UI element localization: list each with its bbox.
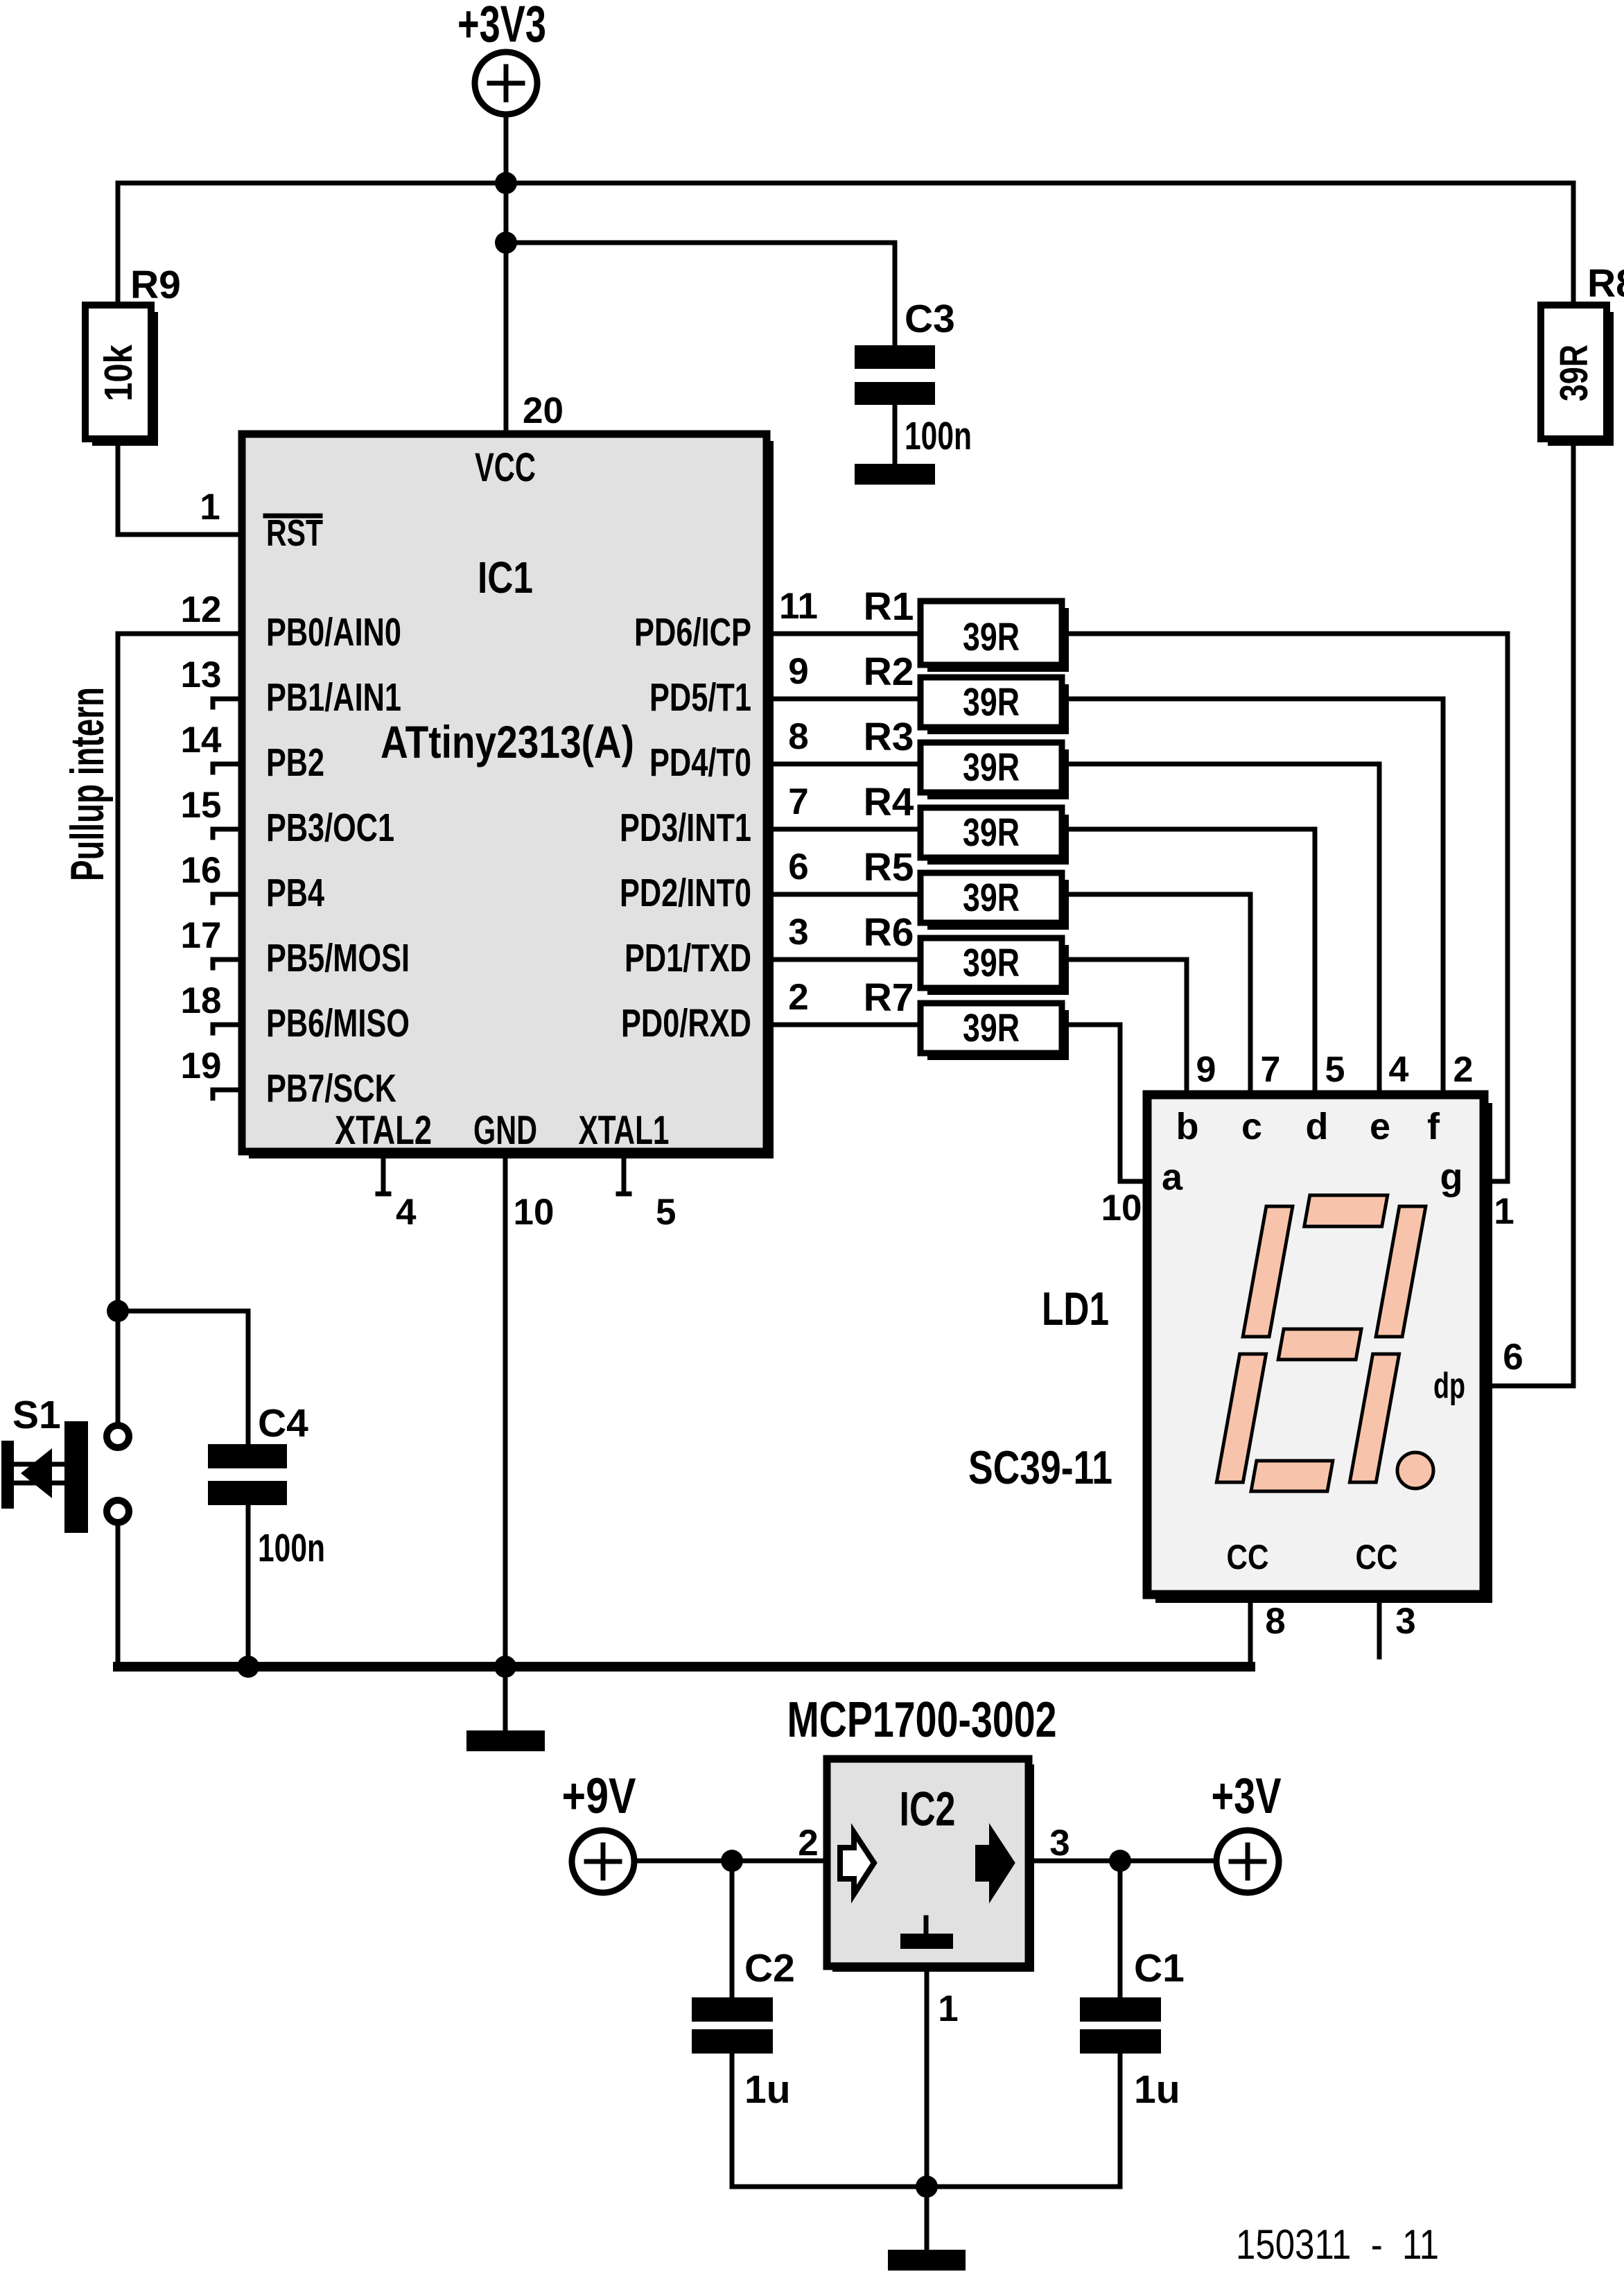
svg-text:12: 12 [181,589,222,630]
svg-text:4: 4 [396,1192,417,1233]
svg-text:2: 2 [1453,1050,1474,1090]
svg-text:XTAL2: XTAL2 [335,1108,432,1153]
svg-text:R2: R2 [864,650,914,694]
svg-text:dp: dp [1433,1366,1465,1406]
svg-text:1: 1 [200,487,220,528]
svg-text:13: 13 [181,654,222,695]
svg-text:6: 6 [788,847,808,887]
svg-text:39R: 39R [963,876,1020,920]
svg-text:C3: C3 [905,297,955,341]
svg-text:PB7/SCK: PB7/SCK [266,1066,396,1111]
svg-text:b: b [1176,1106,1199,1147]
svg-text:1: 1 [938,1988,958,2029]
svg-text:+3V: +3V [1212,1769,1282,1824]
svg-text:7: 7 [1261,1050,1281,1090]
svg-text:XTAL1: XTAL1 [579,1108,670,1153]
svg-text:15: 15 [181,785,222,826]
svg-text:19: 19 [181,1045,222,1086]
svg-text:39R: 39R [963,941,1020,985]
svg-text:PB3/OC1: PB3/OC1 [266,806,394,850]
svg-text:S1: S1 [12,1393,61,1437]
svg-text:LD1: LD1 [1042,1283,1109,1335]
svg-text:PD6/ICP: PD6/ICP [634,610,751,654]
svg-text:4: 4 [1389,1050,1409,1090]
svg-text:R9: R9 [130,263,181,307]
svg-text:PB4: PB4 [266,871,324,915]
svg-text:IC1: IC1 [478,553,533,602]
svg-text:MCP1700-3002: MCP1700-3002 [787,1692,1057,1748]
svg-text:IC2: IC2 [900,1782,956,1836]
svg-text:8: 8 [1265,1601,1285,1642]
svg-text:6: 6 [1503,1337,1523,1378]
svg-text:GND: GND [473,1108,537,1153]
svg-text:PD5/T1: PD5/T1 [649,675,751,720]
svg-text:CC: CC [1227,1538,1269,1577]
svg-text:9: 9 [788,651,808,692]
svg-text:16: 16 [181,850,222,891]
svg-text:150311 - 11: 150311 - 11 [1236,2221,1439,2268]
svg-text:10: 10 [514,1192,555,1233]
svg-text:C4: C4 [258,1401,308,1446]
svg-text:5: 5 [656,1192,676,1233]
svg-text:3: 3 [1049,1823,1069,1864]
svg-text:39R: 39R [1552,345,1596,401]
svg-text:17: 17 [181,915,222,956]
svg-text:1u: 1u [744,2067,791,2112]
svg-text:R4: R4 [864,780,914,824]
svg-text:RST: RST [266,512,323,554]
svg-text:C2: C2 [744,1946,795,1990]
svg-text:C1: C1 [1134,1946,1185,1990]
svg-text:g: g [1440,1156,1463,1198]
svg-text:100n: 100n [905,414,972,458]
svg-text:f: f [1427,1106,1440,1147]
svg-text:PB2: PB2 [266,740,324,785]
svg-text:39R: 39R [963,1006,1020,1050]
svg-text:3: 3 [788,912,808,953]
svg-text:R5: R5 [864,845,914,889]
svg-text:3: 3 [1395,1601,1415,1642]
svg-text:14: 14 [181,720,222,761]
svg-text:PB5/MOSI: PB5/MOSI [266,936,410,980]
svg-text:9: 9 [1196,1050,1216,1090]
svg-text:20: 20 [523,390,564,431]
svg-text:5: 5 [1325,1050,1345,1090]
svg-text:10k: 10k [96,345,141,401]
svg-text:+9V: +9V [562,1769,636,1824]
svg-text:a: a [1162,1156,1183,1198]
svg-text:39R: 39R [963,745,1020,790]
svg-text:VCC: VCC [475,445,536,490]
svg-text:7: 7 [788,781,808,822]
svg-text:1: 1 [1494,1191,1514,1232]
svg-text:e: e [1370,1106,1390,1147]
svg-text:10: 10 [1101,1188,1142,1229]
svg-text:R8: R8 [1587,261,1624,306]
svg-text:39R: 39R [963,615,1020,659]
svg-text:PD4/T0: PD4/T0 [649,740,751,785]
svg-text:PD3/INT1: PD3/INT1 [620,806,751,850]
svg-text:2: 2 [798,1823,818,1864]
svg-text:PB0/AIN0: PB0/AIN0 [266,610,401,654]
svg-text:c: c [1241,1106,1262,1147]
svg-text:18: 18 [181,980,222,1021]
svg-text:PD2/INT0: PD2/INT0 [620,871,751,915]
svg-text:Pullup intern: Pullup intern [61,687,114,881]
svg-text:2: 2 [788,977,808,1018]
svg-text:PD0/RXD: PD0/RXD [621,1001,751,1045]
svg-text:R3: R3 [864,715,914,759]
svg-text:PB6/MISO: PB6/MISO [266,1001,410,1045]
svg-text:PD1/TXD: PD1/TXD [625,936,751,980]
svg-text:d: d [1306,1106,1329,1147]
svg-text:11: 11 [779,586,818,627]
svg-text:R7: R7 [864,975,914,1020]
svg-text:39R: 39R [963,810,1020,855]
svg-text:100n: 100n [258,1526,325,1570]
svg-text:PB1/AIN1: PB1/AIN1 [266,675,401,720]
svg-text:8: 8 [788,716,808,757]
svg-text:1u: 1u [1134,2067,1180,2112]
svg-text:CC: CC [1356,1538,1398,1577]
svg-text:ATtiny2313(A): ATtiny2313(A) [381,716,634,767]
svg-text:R6: R6 [864,910,914,955]
svg-text:+3V3: +3V3 [457,0,546,53]
svg-text:39R: 39R [963,680,1020,724]
svg-text:R1: R1 [864,584,914,629]
svg-text:SC39-11: SC39-11 [968,1441,1112,1494]
